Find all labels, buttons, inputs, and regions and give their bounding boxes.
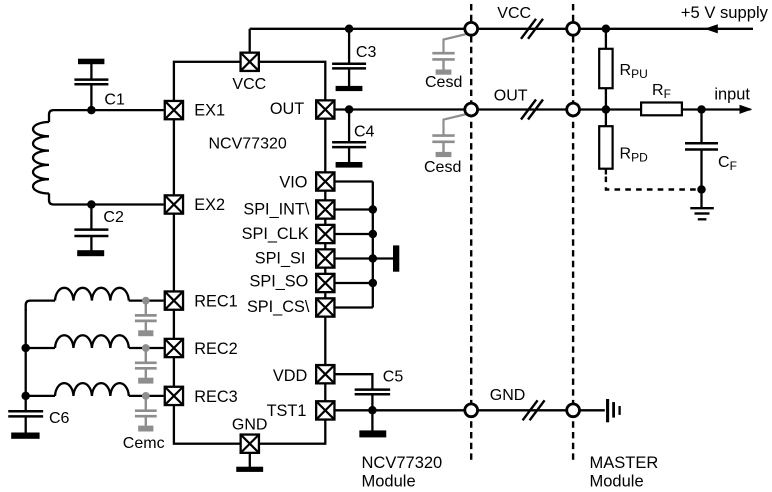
capacitor C1 plates	[74, 80, 108, 85]
wire C4 lower stem	[348, 147, 350, 162]
interruption slashes VCC line	[521, 19, 543, 39]
wire CF ground stem	[700, 190, 702, 209]
wire C6 lower stem	[25, 416, 27, 433]
chassis bar C3	[336, 86, 363, 91]
inductor L1 (vertical coil)	[33, 122, 49, 194]
wire REC1 corner to left rail	[26, 301, 55, 311]
wire RPU bottom stem	[605, 88, 607, 109]
svg-text:VCC: VCC	[497, 5, 531, 22]
wire C2 lower stem	[90, 236, 92, 251]
svg-text:RPD: RPD	[620, 146, 649, 165]
pin SPI_SO (crossed square)	[316, 274, 334, 292]
pin SPI_INT (crossed square)	[316, 200, 334, 218]
terminal circle OUT module-side	[465, 103, 478, 116]
pin SPI_SI (crossed square)	[316, 249, 334, 267]
node junction C5/TST1	[368, 406, 377, 415]
wire RPD bottom stub	[605, 169, 607, 175]
inductor REC1 filter coil	[55, 288, 129, 301]
wire RPD top stem	[605, 110, 607, 127]
wire VDD stub with corner	[336, 374, 373, 389]
svg-text:input: input	[714, 86, 750, 104]
svg-text:RPU: RPU	[620, 62, 648, 81]
pin EX1 (crossed square)	[165, 101, 183, 119]
capacitor Cesd on OUT	[432, 114, 467, 157]
svg-text:C5: C5	[383, 368, 404, 385]
wire C3 lower stem	[348, 68, 350, 86]
svg-text:NCV77320: NCV77320	[362, 454, 443, 472]
wire EX1 line with corner	[49, 110, 164, 122]
svg-text:VCC: VCC	[232, 76, 266, 93]
chassis bar C1	[78, 59, 104, 64]
node junction REC2 left	[21, 344, 30, 353]
svg-text:VDD: VDD	[273, 367, 307, 385]
interruption slashes GND line	[523, 400, 545, 420]
wire VIO stub	[336, 180, 373, 182]
svg-text:GND: GND	[490, 387, 526, 404]
svg-text:OUT: OUT	[270, 100, 304, 118]
pin OUT (crossed square)	[316, 100, 334, 118]
node junction SPI_CLK bus	[369, 230, 378, 239]
svg-text:VIO: VIO	[279, 173, 307, 191]
svg-text:OUT: OUT	[494, 88, 528, 105]
node junction SPI_SI bus	[369, 254, 378, 263]
wire left vertical rail (REC1-C6)	[25, 309, 27, 411]
svg-text:Cesd: Cesd	[424, 159, 461, 176]
wire C1 upper stem	[90, 64, 92, 80]
capacitor Cemc on REC2	[135, 344, 157, 384]
wire C1 lower stem	[90, 84, 92, 110]
resistor RPU	[599, 49, 612, 88]
ground symbol CF	[690, 208, 714, 219]
wire GND pin stem	[249, 453, 251, 468]
svg-text:Module: Module	[362, 473, 416, 491]
svg-text:TST1: TST1	[267, 402, 307, 420]
inductor REC3 filter coil	[55, 383, 129, 396]
wire OUT rail	[336, 108, 751, 110]
capacitor C4 plates	[332, 142, 366, 147]
pin SPI_CS (crossed square)	[316, 298, 334, 316]
svg-text:C4: C4	[354, 124, 375, 141]
node junction SPI_SO bus	[369, 279, 378, 288]
wire CF lower stem	[700, 150, 702, 190]
test-point bar SPI_SI	[393, 245, 399, 271]
pin GND (crossed square)	[241, 435, 259, 453]
IC body outline NCV77320	[174, 62, 325, 444]
terminal circle VCC module-side	[465, 22, 478, 35]
svg-text:SPI_INT\: SPI_INT\	[243, 200, 310, 218]
capacitor CF plates	[685, 143, 718, 149]
capacitor C3 plates	[332, 64, 366, 69]
svg-text:SPI_SI: SPI_SI	[255, 250, 306, 268]
wire C5 lower stem	[371, 394, 373, 431]
chassis bar GND pin	[236, 467, 263, 472]
pin VCC (crossed square)	[241, 53, 259, 71]
node junction CF tap	[697, 105, 706, 114]
svg-text:SPI_CS\: SPI_CS\	[247, 298, 310, 316]
wire REC2 stub (box to coil)	[129, 347, 164, 349]
svg-text:C2: C2	[103, 209, 124, 226]
wire TST1 to GND rail	[336, 409, 605, 411]
pin TST1 (crossed square)	[316, 401, 334, 419]
svg-text:Module: Module	[590, 473, 644, 491]
ground symbol MASTER side	[608, 399, 620, 422]
svg-text:CF: CF	[718, 154, 737, 173]
capacitor Cesd on VCC	[432, 34, 467, 75]
wire VCC top rail	[250, 28, 753, 30]
capacitor C5 plates	[355, 390, 391, 395]
resistor RPD	[599, 126, 612, 169]
node junction REC3 left	[21, 392, 30, 401]
dashed separator line MASTER-module boundary	[572, 4, 574, 461]
wire REC3 left segment	[26, 395, 55, 397]
interruption slashes OUT line	[521, 100, 543, 120]
chassis bar C2	[77, 250, 104, 256]
svg-text:REC2: REC2	[194, 340, 237, 358]
pin VIO (crossed square)	[316, 172, 334, 190]
wire CF upper stem	[700, 110, 702, 144]
node junction CF/ground	[697, 185, 706, 194]
node junction C2 tap	[87, 200, 96, 209]
chassis bar C5	[359, 430, 386, 437]
inductor REC2 filter coil	[55, 335, 129, 348]
pin REC1 (crossed square)	[165, 291, 183, 309]
terminal circle GND module-side	[465, 404, 478, 417]
node junction C4 tap	[345, 105, 354, 114]
terminal circle GND master-side	[567, 404, 580, 417]
capacitor C2 plates	[74, 230, 108, 236]
svg-text:EX1: EX1	[194, 101, 225, 119]
wire SPI_INT stub	[336, 208, 373, 210]
pin EX2 (crossed square)	[165, 195, 183, 213]
wire RPU top stem	[605, 29, 607, 49]
svg-text:RF: RF	[652, 82, 671, 101]
svg-text:EX2: EX2	[194, 196, 225, 214]
arrowhead input (pointing right)	[740, 105, 751, 113]
svg-text:GND: GND	[232, 416, 268, 433]
svg-text:SPI_SO: SPI_SO	[249, 273, 308, 291]
svg-text:SPI_CLK: SPI_CLK	[242, 225, 309, 243]
node junction C3 tap	[345, 25, 354, 34]
svg-text:Cemc: Cemc	[123, 435, 165, 452]
svg-text:REC1: REC1	[194, 293, 237, 311]
arrowhead +5V supply (pointing left)	[706, 25, 718, 33]
svg-text:MASTER: MASTER	[590, 454, 659, 472]
wire REC3 stub (box to coil)	[129, 395, 164, 397]
svg-text:NCV77320: NCV77320	[209, 136, 287, 153]
capacitor C6 plates	[8, 411, 43, 416]
wire EX2 line with corner	[49, 193, 164, 204]
dashed wire RPD to CF ground	[606, 177, 702, 190]
node junction C1 tap	[87, 106, 96, 115]
capacitor Cemc on REC1	[135, 297, 157, 336]
wire SPI_SO stub	[336, 282, 373, 284]
wire REC1 stub (box to coil)	[129, 299, 164, 301]
terminal circle OUT master-side	[567, 103, 580, 116]
svg-text:REC3: REC3	[194, 388, 237, 406]
wire SPI_SI stub	[336, 257, 373, 259]
resistor RF	[641, 103, 682, 116]
terminal circle VCC master-side	[567, 22, 580, 35]
capacitor Cemc on REC3	[135, 392, 157, 432]
pin REC2 (crossed square)	[165, 339, 183, 357]
node junction RPU/RPD tap	[602, 105, 611, 114]
pin SPI_CLK (crossed square)	[316, 225, 334, 243]
wire SPI_SI test stub	[373, 257, 393, 259]
wire SPI_CLK stub	[336, 233, 373, 235]
node junction RPU top tap	[602, 25, 611, 34]
wire C2 stem	[90, 205, 92, 230]
wire VCC pin riser	[249, 29, 251, 53]
svg-text:C3: C3	[356, 44, 377, 61]
pin VDD (crossed square)	[316, 365, 334, 383]
wire C3 stem	[348, 29, 350, 63]
chassis bar C4	[336, 162, 363, 168]
wire C4 stem	[348, 110, 350, 143]
wire SPI bus vertical	[372, 182, 374, 308]
chassis bar C6	[11, 433, 39, 439]
svg-text:C1: C1	[104, 92, 125, 109]
svg-text:C6: C6	[49, 410, 70, 427]
wire REC2 left segment	[26, 347, 55, 349]
svg-text:+5 V supply: +5 V supply	[681, 3, 769, 22]
pin REC3 (crossed square)	[165, 387, 183, 405]
node junction SPI_INT bus	[369, 205, 378, 214]
svg-text:Cesd: Cesd	[425, 74, 462, 91]
dashed separator line NCV77320-module boundary	[470, 4, 472, 461]
wire SPI_CS stub	[336, 306, 373, 308]
